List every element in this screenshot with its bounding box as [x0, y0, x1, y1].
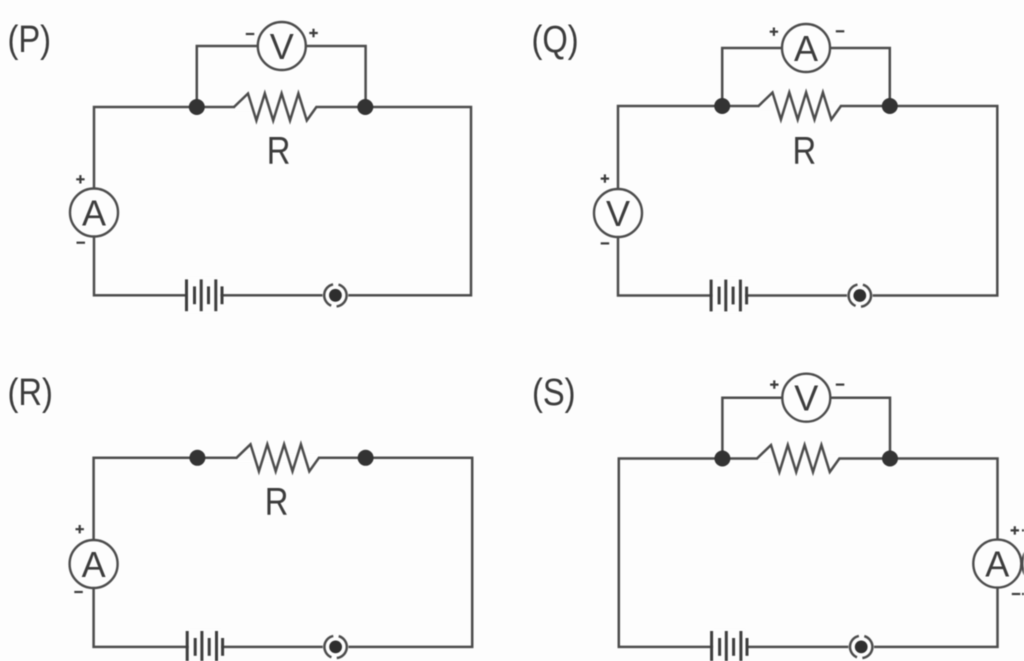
polarity - (voltmeter S): [836, 384, 845, 386]
polarity + (voltmeter Q): [601, 174, 609, 182]
battery B (circuit P): [187, 277, 223, 313]
polarity - (ammeter P): [77, 242, 86, 244]
key/plug key K (circuit P): [323, 282, 349, 308]
svg-text:(R): (R): [8, 371, 53, 414]
svg-text:A: A: [82, 193, 106, 234]
resistor R (circuit R): [237, 444, 319, 471]
wire: circuit S main loop: [619, 459, 998, 647]
polarity + (cut ammeter, right edge): [1022, 529, 1024, 531]
wire: circuit Q main loop: [618, 106, 997, 296]
node: junction dot P left: [189, 99, 205, 115]
svg-text:R: R: [267, 128, 291, 172]
polarity - (voltmeter P): [246, 33, 255, 35]
key/plug key K (circuit S): [848, 634, 874, 660]
svg-text:R: R: [265, 479, 289, 523]
ammeter A (circuit S): [973, 540, 1021, 588]
voltmeter V (circuit P): [258, 22, 306, 70]
resistor R (circuit P): [234, 94, 316, 121]
node: junction dot P right: [357, 99, 373, 115]
svg-text:V: V: [606, 193, 630, 234]
ammeter A (circuit P): [70, 189, 118, 237]
svg-text:R: R: [792, 128, 816, 172]
wire: circuit R main loop: [94, 458, 473, 647]
voltmeter V (circuit S): [782, 374, 830, 422]
polarity + (ammeter P): [76, 175, 84, 183]
svg-text:(Q): (Q): [532, 18, 579, 61]
svg-text:A: A: [985, 544, 1009, 585]
polarity - (voltmeter Q): [601, 242, 610, 244]
resistor R (circuit S): [757, 445, 839, 472]
node: junction dot S left: [714, 451, 730, 467]
polarity - (ammeter R): [74, 591, 83, 593]
battery B (circuit S): [712, 629, 747, 661]
key/plug key K (circuit R): [323, 634, 349, 660]
polarity + (ammeter R): [76, 525, 84, 533]
ammeter A2 partially cut at right edge (circuit S): [1022, 540, 1024, 588]
svg-text:V: V: [270, 26, 294, 67]
polarity - (ammeter S): [1012, 593, 1021, 595]
svg-text:(S): (S): [532, 371, 576, 414]
polarity + (ammeter Q): [770, 28, 778, 36]
node: junction dot R right: [358, 450, 374, 466]
svg-text:A: A: [794, 28, 818, 69]
wire: circuit P main loop: [94, 107, 471, 295]
node: junction dot R left: [189, 450, 205, 466]
wire: ammeter branch (circuit Q): [722, 48, 890, 106]
svg-text:(P): (P): [8, 18, 52, 61]
voltmeter V (circuit Q): [594, 189, 642, 237]
node: junction dot S right: [882, 451, 898, 467]
polarity + (voltmeter P): [309, 29, 318, 38]
polarity + (ammeter S): [1011, 526, 1019, 534]
polarity - (cut ammeter, right edge): [1022, 593, 1024, 595]
ammeter A (circuit Q): [782, 24, 830, 72]
polarity - (ammeter Q): [836, 30, 845, 32]
node: junction dot Q right: [882, 98, 898, 114]
ammeter A (circuit R): [70, 540, 118, 588]
wire: voltmeter branch (circuit P): [197, 46, 366, 107]
wire: voltmeter branch (circuit S): [722, 398, 890, 459]
resistor R (circuit Q): [759, 93, 841, 120]
svg-text:A: A: [82, 544, 106, 585]
polarity + (voltmeter S): [770, 380, 778, 388]
key/plug key K (circuit Q): [847, 283, 873, 309]
node: junction dot Q left: [714, 98, 730, 114]
battery B (circuit Q): [711, 277, 747, 314]
svg-text:V: V: [794, 378, 818, 419]
battery B (circuit R): [187, 629, 222, 661]
